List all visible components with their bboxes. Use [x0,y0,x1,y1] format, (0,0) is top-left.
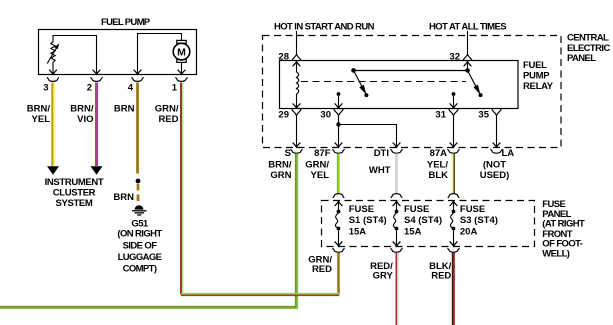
svg-text:GRN: GRN [270,170,291,181]
contact to pin31 [450,92,458,108]
wire pin32 to switch bar [464,62,472,71]
svg-text:FUSE: FUSE [460,204,485,215]
svg-text:1: 1 [172,83,178,94]
svg-text:30: 30 [320,110,331,121]
fuel pump relay box [280,61,519,109]
connector fuse2 top [391,194,402,198]
svg-text:S: S [285,148,291,159]
svg-text:HOT IN START AND RUN: HOT IN START AND RUN [274,21,375,32]
svg-text:20A: 20A [460,227,478,238]
svg-text:BLK: BLK [428,170,448,181]
junction dot on BRN wire [136,179,141,184]
svg-text:RED: RED [158,114,178,125]
fuse S1 [335,201,343,246]
svg-text:M: M [177,47,186,59]
svg-text:87F: 87F [314,148,331,159]
svg-text:15A: 15A [349,227,367,238]
ground G51 [132,205,147,215]
wire BRN/VIO pin2 [96,83,98,167]
arrow pin3 internal [49,70,57,75]
svg-text:BRN: BRN [113,192,134,203]
connector DTI [391,149,403,153]
label fuse S1 [349,204,387,237]
resistor fuel level sender [51,42,55,74]
svg-text:(ON RIGHT: (ON RIGHT [117,229,162,240]
wire BLK/RED from fuse S3 [453,253,455,325]
wire BRN dashed to ground [137,184,140,201]
connector S [291,149,303,153]
connector fuse2 bottom [391,248,403,252]
svg-text:FUEL PUMP: FUEL PUMP [101,17,151,28]
arrow to instrument cluster (pin3) [47,166,59,175]
arrow pin4 internal [134,70,142,75]
wire branch to DTI [339,125,397,148]
svg-text:2: 2 [87,83,92,94]
svg-text:PUMP: PUMP [523,70,550,81]
label CENTRAL ELECTRIC PANEL [567,32,610,64]
wire motor top horizontal [138,34,182,75]
label G51 location [117,219,162,275]
svg-text:BRN/: BRN/ [70,104,94,115]
connector pin 2 [91,77,103,81]
svg-text:RED: RED [312,264,332,275]
wire hot-in-start feed [296,31,298,54]
svg-text:YEL/: YEL/ [427,160,448,171]
central electric panel dashed box [263,36,562,148]
svg-text:31: 31 [435,110,446,121]
arrow pin2 internal [93,70,101,75]
svg-text:CLUSTER: CLUSTER [53,188,96,199]
wire pin30 down [338,115,340,147]
svg-text:SIDE OF: SIDE OF [123,240,158,251]
wire pin31 down [453,115,455,147]
svg-text:RED: RED [431,270,451,281]
svg-text:LUGGAGE: LUGGAGE [118,252,162,263]
svg-text:S4 (ST4): S4 (ST4) [404,215,442,226]
svg-text:FUEL: FUEL [523,60,547,71]
wire BRN/YEL pin3 [52,83,54,167]
connector pin 35 [492,109,502,116]
junction dot pin30 branch [336,122,340,126]
svg-text:S3 (ST4): S3 (ST4) [460,215,498,226]
svg-text:FUSE: FUSE [404,204,429,215]
svg-text:29: 29 [278,110,289,121]
wire RED/GRY from fuse S4 [396,253,398,325]
svg-text:VIO: VIO [77,114,93,125]
switch blade left [354,70,369,97]
connector pin 29 [292,109,302,116]
connector LA [491,149,503,153]
fuel pump box [39,30,197,75]
svg-text:SYSTEM: SYSTEM [56,198,93,209]
connector fuse1 bottom [333,248,345,252]
svg-text:87A: 87A [430,148,448,159]
svg-text:S1 (ST4): S1 (ST4) [349,215,387,226]
svg-text:3: 3 [43,83,48,94]
label fuse S4 [404,204,442,237]
svg-text:WELL): WELL) [542,249,570,260]
svg-text:FUSE: FUSE [349,204,374,215]
connector pin 31 [449,109,459,116]
contact to pin30 [335,92,343,108]
wire YEL/BLK from 87A [453,154,455,195]
arrow to instrument cluster (pin2) [91,166,103,175]
svg-text:GRN/: GRN/ [155,104,179,115]
svg-text:BRN/: BRN/ [27,104,51,115]
wire GRN/RED from fuse S1 [337,253,340,295]
svg-text:WHT: WHT [369,165,391,176]
connector fuse3 top [448,194,459,198]
label INSTRUMENT CLUSTER SYSTEM [45,177,104,209]
svg-text:YEL: YEL [32,114,51,125]
relay actuator dashed line [301,81,466,83]
fuse panel dashed box [322,201,535,247]
svg-text:ELECTRIC: ELECTRIC [567,43,610,54]
svg-text:GRN/: GRN/ [305,160,329,171]
wire WHT from DTI [395,154,398,195]
wire GRN/RED pin1 [181,83,183,295]
switch blade right [468,70,483,97]
label fuse S3 [460,204,498,237]
connector 87F [333,149,345,153]
wire hot-at-all-times feed [467,31,469,54]
connector pin 28 [292,54,302,61]
connector fuse1 top [333,194,344,198]
svg-text:4: 4 [128,83,134,94]
wire BRN/GRN from S [0,154,297,309]
connector pin 1 [176,77,188,81]
svg-text:GRY: GRY [373,270,394,281]
svg-text:15A: 15A [404,227,422,238]
label FUSE PANEL location [542,199,585,260]
svg-text:COMPT): COMPT) [123,264,157,275]
svg-text:HOT AT ALL TIMES: HOT AT ALL TIMES [429,21,506,32]
svg-text:DTI: DTI [374,148,389,159]
switch common bar [351,68,470,73]
svg-text:35: 35 [478,110,489,121]
wire BRN pin4 [136,83,139,174]
svg-text:PANEL: PANEL [567,53,596,64]
connector 87A [448,149,460,153]
wire GRN/YEL from 87F [338,154,340,195]
connector pin 30 [334,109,344,116]
sender wiper arrow [47,47,57,64]
svg-text:LA: LA [502,148,515,159]
fuse S4 [393,201,401,246]
svg-text:RELAY: RELAY [523,81,554,92]
svg-text:INSTRUMENT: INSTRUMENT [45,177,104,188]
svg-text:USED): USED) [480,170,510,181]
connector pin 32 [463,54,473,61]
svg-text:CENTRAL: CENTRAL [567,32,609,43]
connector fuse3 bottom [448,248,460,252]
relay coil K1 [293,62,301,109]
svg-text:BRN: BRN [114,104,135,115]
connector pin 4 [132,77,144,81]
svg-text:BRN/: BRN/ [268,160,292,171]
connector pin 3 [47,77,59,81]
wire GRN/RED horizontal run [181,294,339,296]
wire sender top horizontal [53,36,97,75]
wire pin35 down [496,115,498,147]
svg-text:(NOT: (NOT [483,160,506,171]
fuse S3 [450,201,458,246]
motor M1 fuel pump motor [173,40,190,74]
svg-text:YEL: YEL [311,170,330,181]
arrow pin1 internal [178,70,186,75]
wire pin29 to S [296,115,298,147]
label FUEL PUMP RELAY [523,60,554,92]
